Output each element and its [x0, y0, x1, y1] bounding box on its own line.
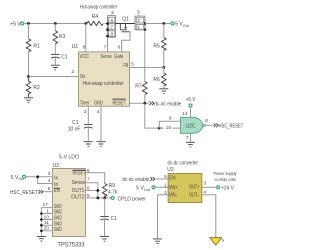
svg-text:10 nF: 10 nF: [68, 127, 81, 133]
ground U3: [153, 239, 162, 244]
resistor R5: [163, 24, 165, 38]
svg-text:CPLD power: CPLD power: [118, 196, 147, 202]
capacitor C1 10nF: [84, 125, 93, 129]
ground U2C: [186, 142, 195, 147]
wire R3 vertical: [54, 24, 56, 31]
svg-text:dc-dc enable: dc-dc enable: [154, 101, 181, 107]
svg-text:3: 3: [48, 171, 51, 177]
svg-text:RESET: RESET: [113, 100, 126, 106]
wire OUT1: [86, 191, 98, 198]
svg-text:17: 17: [43, 202, 49, 208]
svg-text:4: 4: [97, 109, 100, 115]
svg-text:R6: R6: [153, 77, 160, 83]
wire GND bus: [41, 208, 52, 236]
resistor R3: [53, 31, 58, 44]
svg-text:9: 9: [169, 116, 172, 122]
svg-text:8: 8: [205, 118, 208, 124]
svg-text:In: In: [54, 182, 58, 188]
svg-text:C1: C1: [72, 120, 79, 126]
svg-text:C1: C1: [111, 216, 118, 222]
junction VCC tap: [84, 22, 87, 25]
wire Q1 gate to U1 Gate: [122, 32, 130, 52]
wire C1 CPLD: [104, 198, 106, 216]
wire reset net down to gate input: [145, 103, 160, 128]
wire gate output: [205, 124, 213, 126]
svg-text:to relay coils: to relay coils: [215, 177, 237, 183]
svg-text:7: 7: [104, 44, 107, 50]
svg-text:OUT1: OUT1: [72, 188, 85, 194]
svg-text:10: 10: [44, 214, 50, 220]
wire U1 pin4 gnd: [100, 106, 102, 141]
svg-text:+5 V: +5 V: [10, 22, 21, 28]
wire VCC pin8: [85, 24, 87, 52]
junction R5 tap: [162, 22, 165, 25]
ground R6: [159, 89, 168, 94]
svg-text:R7: R7: [135, 84, 142, 90]
svg-text:1: 1: [137, 25, 140, 31]
svg-text:4: 4: [203, 189, 206, 195]
wire top rail: [24, 23, 87, 25]
svg-text:GND: GND: [94, 100, 103, 106]
svg-text:HSC_RESET: HSC_RESET: [219, 123, 244, 129]
svg-text:R2: R2: [33, 85, 40, 91]
wire R1 to junction: [28, 52, 30, 77]
ground U1 pin4: [97, 142, 106, 147]
wire R1 vertical: [28, 24, 30, 39]
ground C1: [51, 65, 60, 70]
resistor R6: [163, 68, 165, 74]
svg-text:2: 2: [164, 190, 167, 196]
wire On to U1 pin2: [29, 76, 79, 78]
svg-text:7: 7: [110, 24, 113, 30]
wire pin7 ground: [190, 133, 192, 142]
svg-text:3: 3: [203, 181, 206, 187]
wire Q1 source sense vertical: [144, 30, 146, 82]
net label HSC_RESET: [214, 123, 218, 127]
svg-text:20: 20: [44, 226, 50, 232]
svg-text:OUT+: OUT+: [189, 185, 199, 191]
svg-text:10: 10: [166, 125, 172, 131]
wire R3 to C1: [54, 44, 56, 55]
resistor R4: [87, 21, 104, 25]
svg-text:11: 11: [44, 220, 49, 226]
wire C1 to ground: [54, 58, 56, 65]
svg-text:U2: U2: [53, 163, 60, 169]
wire VIN- ground: [158, 195, 169, 239]
wire EN: [44, 191, 53, 193]
capacitor C1 top: [51, 55, 60, 59]
svg-text:2: 2: [71, 69, 74, 75]
junction On node: [27, 75, 30, 78]
svg-text:Gate: Gate: [114, 54, 123, 60]
svg-text:In: In: [54, 176, 58, 182]
svg-text:6: 6: [118, 44, 121, 50]
svg-text:Hot-swap controller: Hot-swap controller: [83, 81, 125, 87]
resistor R1: [26, 39, 31, 52]
svg-text:R3: R3: [59, 34, 66, 40]
svg-text:6: 6: [87, 168, 90, 174]
junction R3 tap: [54, 22, 57, 25]
ground -24V return triangle: [210, 238, 222, 245]
svg-text:dc-dc enable: dc-dc enable: [122, 177, 149, 183]
svg-text:3: 3: [84, 109, 87, 115]
node +24 V: [217, 186, 220, 189]
capacitor C1 CPLD: [100, 216, 109, 220]
svg-text:5: 5: [164, 174, 167, 180]
wire output rail: [145, 23, 171, 25]
svg-text:U2C: U2C: [186, 123, 196, 129]
wire R7 to reset net: [144, 95, 146, 104]
svg-text:14: 14: [182, 111, 188, 117]
resistor R9: [102, 184, 107, 197]
svg-text:R9: R9: [109, 183, 116, 189]
svg-text:8: 8: [110, 32, 113, 38]
ground R2: [24, 98, 33, 103]
svg-text:EN: EN: [169, 176, 176, 182]
op-amp U2C nand gate: [181, 117, 203, 133]
svg-text:5: 5: [48, 186, 51, 192]
svg-text:Hot-swap controller: Hot-swap controller: [80, 5, 117, 11]
svg-text:C1: C1: [61, 54, 68, 60]
wire RESET pullup: [86, 173, 105, 184]
svg-text:+5 V: +5 V: [186, 97, 196, 103]
op-amp U3 dc-dc converter: [168, 174, 202, 203]
wire Sense tie: [86, 183, 98, 191]
resistor R2: [26, 77, 31, 98]
svg-text:8: 8: [83, 44, 86, 50]
svg-text:EN: EN: [54, 188, 60, 194]
transistor Q1 left package: [108, 16, 116, 38]
svg-text:Sense: Sense: [100, 54, 112, 60]
op-amp U1 hot-swap controller: [79, 52, 130, 106]
svg-text:2: 2: [137, 18, 140, 24]
svg-text:1: 1: [164, 182, 167, 188]
svg-text:VCC: VCC: [80, 54, 90, 60]
svg-text:5-V LDO: 5-V LDO: [59, 154, 79, 160]
svg-text:Power supply: Power supply: [214, 171, 237, 177]
svg-text:4: 4: [48, 178, 51, 184]
junction R1 tap: [27, 22, 30, 25]
net label dc-dc enable: [149, 101, 153, 105]
wire LDO input: [26, 177, 53, 184]
svg-text:RESET: RESET: [73, 170, 86, 176]
svg-text:On: On: [80, 74, 86, 80]
wire OUT2 CPLD node: [86, 197, 112, 199]
wire FB: [130, 67, 164, 69]
svg-text:OUT2: OUT2: [71, 195, 85, 201]
svg-text:OUT–: OUT–: [189, 193, 200, 199]
svg-text:R5: R5: [153, 44, 160, 50]
ground U2: [37, 236, 46, 241]
wire OUT-: [202, 195, 216, 238]
svg-text:VIN+: VIN+: [169, 185, 178, 191]
node 5 V_Out top: [171, 22, 174, 25]
svg-text:U1: U1: [72, 44, 79, 50]
svg-text:Q1: Q1: [122, 16, 129, 22]
resistor R7: [143, 82, 148, 95]
wire pin14: [190, 107, 192, 117]
node CPLD power: [111, 196, 114, 199]
svg-text:TPS75333: TPS75333: [58, 243, 86, 249]
svg-text:VIN–: VIN–: [169, 193, 178, 199]
svg-text:HSC_RESET: HSC_RESET: [10, 190, 38, 196]
svg-text:R4: R4: [92, 14, 99, 20]
svg-text:7: 7: [87, 177, 90, 183]
svg-text:4.7k: 4.7k: [108, 190, 118, 196]
wire U1 pin3 timer: [87, 106, 89, 124]
svg-text:Sense: Sense: [72, 180, 86, 186]
svg-text:Timer: Timer: [80, 100, 90, 106]
ground C1 CPLD: [100, 237, 109, 242]
svg-text:dc-dc converter: dc-dc converter: [168, 161, 199, 167]
svg-text:GND: GND: [54, 227, 62, 233]
svg-text:7: 7: [186, 135, 189, 141]
svg-text:U3: U3: [167, 167, 174, 173]
svg-text:1: 1: [46, 208, 49, 214]
wire OUT+: [202, 186, 217, 188]
transistor Q1 right package: [135, 16, 145, 30]
svg-text:+24 V: +24 V: [221, 186, 234, 192]
svg-text:6: 6: [110, 18, 113, 24]
svg-text:5: 5: [131, 61, 134, 67]
svg-text:R1: R1: [33, 43, 40, 49]
svg-text:FB: FB: [123, 63, 128, 69]
wire Sense pin7: [107, 37, 109, 52]
wire RESET to dc-dc enable: [130, 102, 150, 104]
ground C1 timer: [84, 142, 93, 147]
junction FB node: [162, 66, 165, 69]
